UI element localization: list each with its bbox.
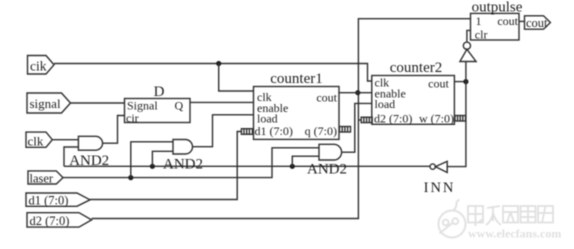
wire feedback line (INN output) [64, 165, 430, 167]
svg-text:AND2: AND2 [307, 161, 347, 177]
flip-flop D (Signal/Q/cir) [125, 84, 191, 125]
node junction feedback to AND2 U3 [290, 164, 295, 169]
wire inverter U4 output to outpulse clr [467, 30, 471, 42]
svg-text:AND2: AND2 [163, 156, 203, 172]
wire feedback branch to AND2 U3 lower input [292, 156, 319, 166]
wire D Q output to counter1 enable [190, 101, 254, 103]
svg-text:counter2: counter2 [390, 60, 442, 76]
svg-text:d2 (7:0): d2 (7:0) [30, 214, 70, 228]
wire laser line to AND2 U3 top input [63, 148, 319, 178]
input tag signal [27, 93, 71, 113]
wire laser branch to AND2 U2 top input [131, 142, 173, 178]
svg-text:w (7:0): w (7:0) [419, 112, 454, 126]
block counter2 [372, 60, 455, 126]
bus connector w at counter2 [455, 116, 466, 122]
bus connector q at counter1 [340, 127, 351, 133]
node junction feedback to AND2 U2 [150, 164, 155, 169]
output tag cout [525, 16, 551, 30]
svg-text:cout: cout [428, 77, 449, 91]
node junction on cout line at d2 riser [355, 90, 360, 95]
svg-text:q (7:0): q (7:0) [305, 124, 337, 138]
wire AND2 U2 output to counter1 load [193, 115, 254, 147]
wire clk to AND2 U1 [52, 139, 78, 141]
svg-text:1: 1 [476, 14, 482, 28]
input tag d1(7:0) [26, 193, 90, 207]
wire AND2 U1 lower input from feedback line [64, 147, 78, 166]
node junction laser to AND2 U2 [128, 175, 133, 180]
and-gate AND2 U1 [69, 136, 109, 169]
watermark text 电子发烧友 (drawn strokes) [468, 206, 553, 226]
wire d2 stub to counter2 bus [358, 119, 361, 121]
wire counter1 cout to counter2 enable [339, 92, 372, 94]
wire cout node up to inverter [465, 62, 467, 82]
svg-text:INN: INN [424, 180, 456, 196]
node junction counter2 cout [463, 79, 468, 84]
wire outpulse cout to output tag [519, 20, 525, 22]
svg-text:www.elecfans.com: www.elecfans.com [468, 227, 561, 241]
svg-text:counter1: counter1 [270, 71, 322, 87]
wire feedback branch to AND2 U2 lower input [152, 151, 173, 166]
wire d1 bus to counter1 [90, 132, 241, 200]
node junction on cik line [216, 61, 221, 66]
wire cik branch to counter1 clk [219, 64, 254, 92]
svg-text:cout: cout [526, 16, 548, 30]
and-gate AND2 U2 [163, 140, 203, 173]
input tag clk [26, 132, 52, 148]
input tag cik [28, 56, 55, 75]
svg-text:cout: cout [316, 91, 337, 105]
block counter1 [254, 71, 340, 139]
svg-text:d1 (7:0): d1 (7:0) [29, 193, 69, 207]
svg-text:cik: cik [30, 59, 47, 74]
inverter U4 (clr, pointing up) [460, 42, 476, 61]
input tag laser [28, 171, 63, 185]
svg-text:cir: cir [126, 111, 139, 125]
wire signal to D [71, 102, 125, 104]
bus connector d2 at counter2 [361, 117, 372, 122]
svg-text:cout: cout [497, 14, 518, 28]
svg-text:clk: clk [28, 133, 44, 148]
inverter INN (pointing left) [424, 161, 456, 196]
wire d2 bus riser to outpulse input [92, 19, 471, 219]
wire cik line to counter2 clk [54, 64, 372, 82]
wire AND2 U3 output to counter2 load [342, 103, 372, 152]
svg-text:laser: laser [30, 171, 54, 185]
svg-text:d2 (7:0): d2 (7:0) [374, 112, 412, 126]
wire cout node down to INN input [447, 82, 466, 167]
svg-text:signal: signal [30, 96, 61, 111]
svg-text:load: load [375, 97, 396, 111]
svg-text:Q: Q [175, 99, 184, 113]
wire counter2 cout to node [454, 81, 466, 83]
svg-text:d1 (7:0): d1 (7:0) [255, 124, 293, 138]
and-gate AND2 U3 [307, 144, 347, 177]
block outpulse [471, 0, 523, 42]
svg-text:clr: clr [475, 28, 488, 42]
watermark logo elecfans [439, 200, 466, 238]
bus connector d1 at counter1 [241, 129, 252, 135]
wire AND2 U1 output to D cir [103, 116, 125, 144]
input tag d2(7:0) [27, 213, 92, 228]
